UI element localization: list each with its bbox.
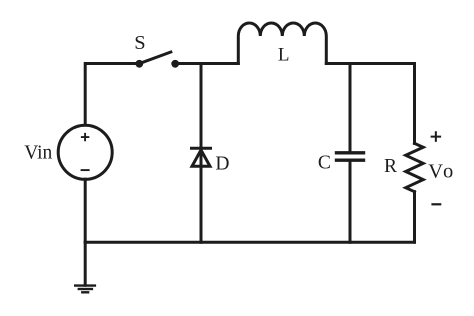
svg-text:C: C: [318, 153, 331, 174]
label plus (output): [431, 131, 442, 142]
ground bar 1: [74, 284, 96, 286]
wire bottom horizontal: [85, 241, 414, 244]
wire inductor to top-right corner: [326, 62, 414, 65]
switch node dot left: [135, 60, 143, 68]
wire diode bottom lead: [200, 150, 203, 242]
wire right vertical to resistor top: [413, 64, 416, 144]
svg-text:R: R: [384, 156, 397, 177]
wire capacitor top lead: [349, 64, 352, 153]
svg-text:D: D: [215, 153, 229, 174]
wire diode top lead: [200, 64, 203, 150]
wire Vin bottom lead: [84, 179, 87, 242]
svg-text:o: o: [443, 161, 453, 183]
switch node dot right: [171, 60, 179, 68]
inductor L winding: [238, 23, 326, 64]
capacitor C bottom plate: [335, 158, 365, 161]
wire Vin top lead and top-left segment to switch: [85, 64, 139, 126]
wire switch right to inductor: [174, 62, 238, 65]
svg-text:Vin: Vin: [24, 143, 52, 164]
resistor R zigzag: [406, 143, 424, 191]
label minus (output): [431, 203, 441, 205]
diode D triangle: [192, 150, 210, 166]
source plus sign: [81, 133, 89, 141]
svg-text:L: L: [278, 45, 290, 66]
source minus sign: [81, 169, 90, 171]
ground bar 2: [78, 288, 94, 290]
ground bar 3: [81, 291, 89, 293]
diode D cathode bar: [192, 147, 211, 150]
capacitor C top plate: [335, 151, 365, 154]
voltage source Vin circle: [58, 125, 112, 179]
ground stem: [84, 242, 87, 285]
svg-text:S: S: [134, 32, 145, 54]
wire resistor bottom to corner: [413, 192, 416, 243]
svg-text:V: V: [428, 161, 443, 183]
wire capacitor bottom lead: [349, 160, 352, 242]
switch S blade: [139, 52, 171, 64]
